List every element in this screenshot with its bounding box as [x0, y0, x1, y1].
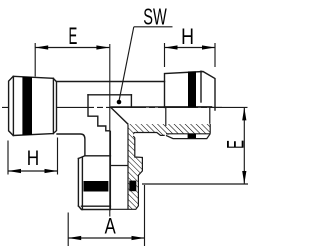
seal band B1	[22, 77, 32, 135]
label E right (rotated)	[223, 140, 250, 149]
arrowhead A left	[68, 236, 81, 240]
section cone diagonal	[111, 108, 128, 125]
svg-text:A: A	[105, 214, 117, 239]
vertical branch centreline / E extension	[109, 44, 111, 217]
section boundary line	[111, 106, 212, 108]
body outline	[57, 82, 212, 156]
arrowhead E-right up	[242, 107, 246, 120]
label E top	[68, 23, 77, 50]
horizontal centreline	[2, 106, 222, 108]
arrowhead H-top right	[202, 45, 215, 49]
hex left face	[77, 159, 79, 207]
shoulder	[85, 155, 111, 157]
dim E right	[142, 107, 248, 184]
arrowhead H-left left	[8, 169, 21, 173]
branch centre section edge	[109, 131, 111, 210]
label H left	[27, 148, 39, 171]
arrowhead E left	[35, 45, 48, 49]
svg-text:E: E	[223, 140, 250, 149]
branch sectioned right wall	[128, 134, 142, 210]
seal band B3 branch	[84, 181, 109, 192]
nut N2 top half	[165, 71, 216, 110]
arrowhead H-left right	[45, 169, 58, 173]
arrowhead E right	[96, 45, 109, 49]
seal band B2	[188, 71, 196, 107]
arrowhead A right	[132, 236, 145, 240]
hatch nut right lower	[166, 124, 210, 135]
svg-text:H: H	[27, 148, 39, 171]
svg-text:E: E	[68, 23, 77, 50]
dim H left	[8, 138, 58, 175]
body top edge	[57, 81, 165, 83]
body bottom left + fillet into neck	[57, 134, 85, 156]
nut N1 body	[9, 76, 57, 135]
dim H top	[165, 43, 216, 67]
arrowhead E-right down	[242, 171, 246, 184]
label H top	[181, 25, 194, 49]
hatch body right	[128, 124, 166, 135]
dim E top	[35, 43, 109, 77]
bore steps	[88, 95, 110, 131]
seal band B4 branch right	[129, 181, 136, 192]
branch neck left	[78, 156, 110, 210]
svg-text:H: H	[181, 25, 194, 49]
hex step right	[130, 95, 132, 107]
seal band right port	[188, 134, 196, 139]
label SW + leader	[143, 4, 167, 30]
arrowhead H-top left	[165, 45, 178, 49]
dim A bottom	[68, 185, 144, 246]
hex facet line	[88, 94, 131, 96]
leader dot on hex flat	[117, 100, 122, 105]
body sect outline	[133, 107, 210, 138]
label A	[105, 214, 117, 239]
